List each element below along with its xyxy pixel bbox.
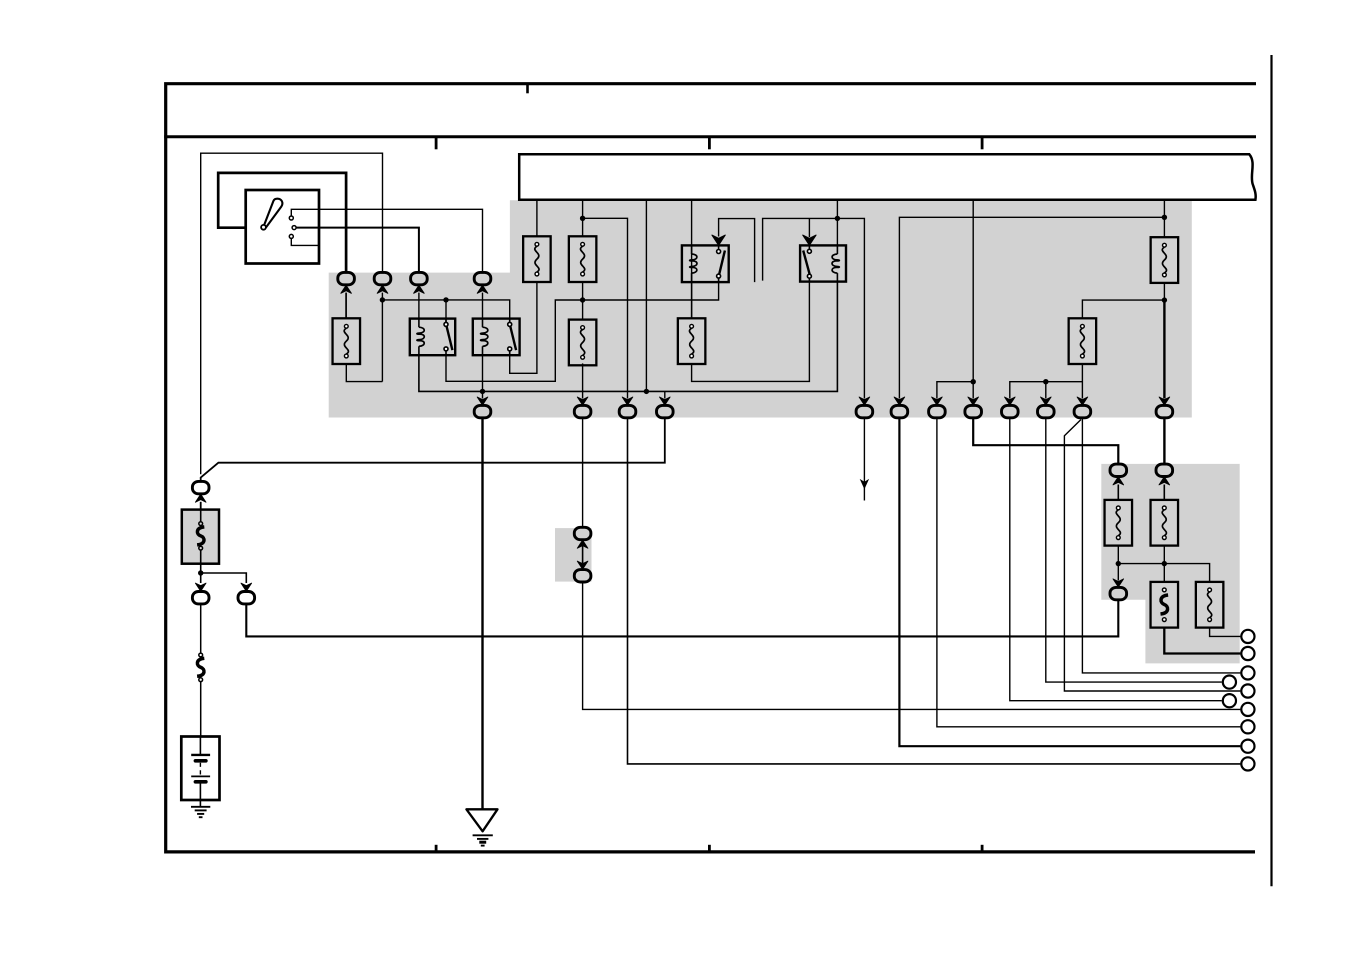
arrow under connector E <box>1113 477 1124 485</box>
wire: bus drop to fuse 5 column <box>1163 200 1165 237</box>
ignition contact ST <box>289 216 293 220</box>
node connector B junction <box>380 297 385 302</box>
connector 8 <box>1002 405 1019 417</box>
arrow above connector 8 <box>1005 397 1016 405</box>
wire: fuse 7 to fuse 8 <box>1163 546 1165 582</box>
wire: rail branch to connector 3 <box>664 391 666 398</box>
connector C (top row) <box>411 272 428 284</box>
power bus bar (white band with torn right edge) <box>519 154 1255 200</box>
wire: connector 4 dangling arrow <box>863 418 865 501</box>
fuse 3b <box>678 318 706 364</box>
wire: bus drop through relay R4 coil <box>836 200 838 246</box>
arrow above connector 9 <box>1041 397 1052 405</box>
ignition contact IG <box>292 226 296 230</box>
arrow above connector 5 <box>894 397 905 405</box>
ground triangle <box>466 809 497 831</box>
node R2 coil lower junction <box>480 389 485 394</box>
node R4 coil tap <box>835 216 840 221</box>
wire: ground run from connector 0 <box>481 418 483 809</box>
fusible link box (gray) <box>182 510 219 564</box>
wire: R2 switch bottom to fuse A bottom <box>510 282 537 373</box>
node fuse B junction <box>580 297 585 302</box>
gray box of middle connector pair <box>555 528 592 582</box>
wire: connector F to fuse 7 <box>1163 485 1165 500</box>
connector 1 <box>574 405 591 417</box>
node under fusible link <box>198 570 203 575</box>
fuse 6 <box>1105 500 1133 546</box>
wire: pair bottom to ring 5 <box>583 582 1241 709</box>
wire: connector 9 to ring A <box>1046 418 1222 682</box>
arrow above connector L2 <box>195 583 206 591</box>
arrow above connector 4 <box>859 397 870 405</box>
ignition switch box <box>246 190 319 264</box>
tick 1 on divider <box>435 137 438 149</box>
wire: thick link pair bottom to battery branch connector <box>246 600 1118 636</box>
right block pair bottom connector <box>1110 587 1127 599</box>
wire: branch to connector L3 <box>201 573 247 583</box>
wire: connector A to fuse 1 <box>345 293 347 319</box>
wire: fuse 9 to ring 1 <box>1210 628 1241 637</box>
tick on top border <box>526 84 529 94</box>
wire: fuse 1 bottom link <box>346 364 382 382</box>
wire: ACC contact stub <box>291 239 319 246</box>
wire: fuse B bottom to junction <box>582 282 584 320</box>
node on fuse B column <box>580 216 585 221</box>
ignition key lever <box>264 199 283 227</box>
node connector 8 tap <box>971 379 976 384</box>
ring 7 <box>1241 740 1254 753</box>
ring 8 <box>1241 757 1254 770</box>
connector B (top row) <box>374 272 391 284</box>
arrow above connector 2 <box>622 397 633 405</box>
wire: connector L1 to fusible link box <box>200 502 202 510</box>
arrow above connector 1 <box>577 397 588 405</box>
wire: relay rail <box>382 300 509 319</box>
fuse 1 <box>333 318 361 364</box>
arrow above connector 6 <box>932 397 943 405</box>
wire: arrow drop into R4 switch <box>808 218 810 237</box>
ground bars <box>473 835 493 845</box>
wire: R4 pickup hook to connector 4 <box>763 218 865 398</box>
arrow under connector L1 <box>195 494 206 502</box>
right block connector E <box>1110 464 1127 476</box>
wire: fuse 8 to ring 2 <box>1164 628 1240 654</box>
wire between pair <box>582 546 584 563</box>
wire: connector E to fuse 6 <box>1117 485 1119 500</box>
fuse B <box>569 236 597 282</box>
wire: connector 11 to right block connector <box>1163 418 1165 464</box>
right page edge line <box>1270 55 1272 886</box>
wire: connector B drop <box>381 293 383 382</box>
main gray block of junction/relay box <box>329 200 1192 417</box>
connector 11 <box>1156 405 1173 417</box>
wire: connector 3 long link to battery column <box>201 418 665 481</box>
tick 2 on bottom border <box>708 845 711 852</box>
wire: connector 6 to ring 6 <box>937 418 1241 727</box>
wire: branch to connector 2 <box>583 218 628 398</box>
arrow above connector 0 <box>477 397 488 405</box>
ignition contact ACC <box>289 234 293 238</box>
node relay R1 tap <box>443 297 448 302</box>
relay R2 <box>473 319 520 356</box>
connector 5 <box>891 405 908 417</box>
wire: connector 10 to ring 3 <box>1082 418 1240 673</box>
right block connector F <box>1156 464 1173 476</box>
arrow under connector F <box>1159 477 1170 485</box>
node below fuse 7 <box>1162 561 1167 566</box>
gray box of right-side fuse block <box>1101 464 1239 664</box>
battery <box>181 737 219 807</box>
wire: branch to connector 7 <box>937 382 973 399</box>
ring 6 <box>1241 720 1254 733</box>
arrow above right pair bottom <box>1113 579 1124 587</box>
tick 2 on divider <box>708 137 711 149</box>
wire: fuse 4R top link <box>1082 300 1164 318</box>
ring 2 <box>1241 647 1254 660</box>
wire: thick battery feed from key pivot to fuse column <box>218 173 346 272</box>
connector 4 <box>856 405 873 417</box>
relay R1 <box>410 319 455 356</box>
tick 1 on bottom border <box>435 845 438 852</box>
connector 6 <box>929 405 946 417</box>
arrow into R4 switch <box>803 235 816 245</box>
battery ground <box>191 807 210 817</box>
arrow under connector C <box>414 285 425 293</box>
connector 0 (ground feed) <box>474 405 491 417</box>
node below fuse 6 <box>1116 561 1121 566</box>
fuse 9 <box>1196 582 1224 628</box>
wire: R1 switch bottom to fuseB junction <box>446 300 583 381</box>
ring 4 <box>1241 684 1254 697</box>
wire: ST contact to connector D <box>291 209 482 272</box>
ring 5 <box>1241 703 1254 716</box>
wire: R2 coil bottom to lower rail <box>482 355 484 398</box>
fuse A <box>523 236 551 282</box>
connector 3 <box>657 405 674 417</box>
middle connector pair bottom <box>574 570 591 582</box>
connector 10 <box>1074 405 1091 417</box>
arrow under connector B <box>377 285 388 293</box>
wire: bus drop to fuse A <box>536 200 538 237</box>
wire: R3 pickup hook <box>719 219 755 283</box>
wire: ignition sw terminal AM1 loop to battery connector column <box>201 153 383 474</box>
fuse 8 (fusible link) <box>1151 582 1179 628</box>
wire: R3 switch bottom to fuse B junction <box>583 282 719 300</box>
wire: connector 8 to ring B <box>1010 418 1222 701</box>
wire: fuse 4R bottom fanout <box>1010 364 1083 399</box>
fuse 5 <box>1151 237 1179 283</box>
header divider line <box>164 135 1256 138</box>
wire: thick feed to connector 12 <box>1163 300 1165 398</box>
wire: fuse 3b bottom to R4 switch <box>692 282 810 382</box>
connector 7 <box>965 405 982 417</box>
wire: connector 5 to ring 7 <box>899 418 1240 746</box>
wire: link box to connector L2 <box>200 564 202 583</box>
wire: connector 7 to right block connector <box>973 418 1118 464</box>
arrow into R3 switch <box>712 235 725 245</box>
arrow above connector 11 <box>1159 397 1170 405</box>
wire: IG contact to connector C <box>296 228 419 273</box>
node fuse5 lower junction <box>1162 297 1167 302</box>
wire: right block cross link <box>1118 564 1209 582</box>
wire: connector 10 jogged branch to ring 4 <box>1064 420 1240 692</box>
node on fuse5 column top <box>1162 215 1167 220</box>
wire: bus drop through fuse B column <box>582 200 584 237</box>
fuse 4R <box>1069 318 1097 364</box>
wire: fuse5 bottom to junction <box>1163 283 1165 300</box>
arrow above connector 3 <box>660 397 671 405</box>
tick 3 on divider <box>981 137 984 149</box>
ring 1 <box>1241 630 1254 643</box>
wire: connector D through R2 coil <box>482 293 484 319</box>
node fanout tap <box>1043 379 1048 384</box>
wire: connector 2 to ring 8 <box>628 418 1241 764</box>
connector D (top row) <box>474 272 491 284</box>
wire: R1 switch top to rail <box>445 300 447 323</box>
wire: R3 coil to fuse 3b <box>691 282 693 318</box>
wire: connector 1 to middle pair <box>582 418 584 527</box>
dangling arrowhead <box>860 479 869 489</box>
connector L3 <box>238 592 255 604</box>
connector L2 <box>192 592 209 604</box>
connector A (top row) <box>338 272 355 284</box>
relay R3 <box>682 245 729 282</box>
arrow above connector 7 <box>968 397 979 405</box>
tick 3 on bottom border <box>981 845 984 852</box>
ring 3 <box>1241 666 1254 679</box>
battery feed connector L1 <box>192 481 209 493</box>
arrow under pair top <box>577 540 588 548</box>
wire: bus drop through relay R3 coil <box>691 200 693 318</box>
connector 9 <box>1038 405 1055 417</box>
arrow under connector D <box>477 285 488 293</box>
arrow above connector L3 <box>241 583 252 591</box>
wire: bus drop to main lower rail <box>645 200 647 392</box>
middle connector pair top <box>574 527 591 539</box>
arrow under connector A <box>341 285 352 293</box>
ring B <box>1223 694 1236 707</box>
wire: fuse 2b bottom to connector 1 <box>582 363 584 398</box>
wire: connector L2 to fusible link <box>200 604 202 653</box>
wire: connector C through R1 coil <box>418 293 420 319</box>
ring A <box>1223 676 1236 689</box>
arrow above connector 10 <box>1077 397 1088 405</box>
outer border frame <box>166 84 1256 852</box>
fusible link (main) <box>197 653 204 682</box>
connector 2 <box>619 405 636 417</box>
wire: fuse 6 to pair bottom <box>1117 546 1119 581</box>
wire: bus drop to connector 8 <box>972 200 974 399</box>
wire: main lower rail <box>419 282 838 392</box>
wire: fusible link to battery <box>200 682 202 737</box>
fuse 7 <box>1151 500 1179 546</box>
relay R4 <box>800 245 846 281</box>
node rail bus tap <box>644 389 649 394</box>
arrow above pair bottom <box>577 561 588 569</box>
fuse 2b <box>569 320 597 366</box>
wire: long branch to connector 6 <box>899 217 1164 398</box>
